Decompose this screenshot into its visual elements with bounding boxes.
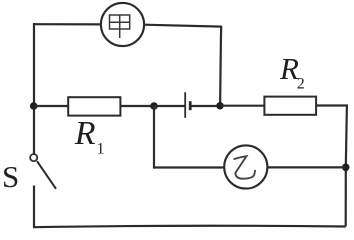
meter U2 label 乙 glyph [234,156,255,179]
svg-text:1: 1 [97,141,105,158]
label R2 [279,51,305,93]
wire meter 乙 to right node [268,166,346,168]
switch S pivot circle [30,154,37,161]
wire battery to node [190,105,221,107]
node R1 right junction [150,102,158,110]
svg-text:R: R [74,115,96,152]
battery BT1 long plate [184,92,186,118]
wire middle left [34,105,68,107]
meter U1 label 甲 glyph [110,15,130,38]
label R1 [74,115,105,158]
svg-text:2: 2 [297,76,305,93]
node right junction [342,164,350,172]
wire branch drop from R1-right node [153,106,155,169]
switch S lower contact stub [33,186,35,228]
resistor R1 [68,97,120,115]
wire R1 to node [120,105,155,107]
battery BT1 short plate [189,101,192,110]
meter U2 (乙) circle [224,145,267,188]
resistor R2 [264,97,316,115]
wire branch horizontal to meter 乙 [153,166,224,168]
wire node to battery [154,105,185,107]
wire bottom [33,226,346,227]
wire left vertical [33,23,35,154]
wire R2 to right corner [316,106,347,227]
wire top-left segment [34,23,101,25]
meter U1 (甲) circle [101,3,144,46]
svg-text:S: S [2,159,19,194]
wire right drop from top to battery node [220,26,221,106]
wire top-right segment [144,25,221,27]
wire node to R2 [220,105,264,107]
node battery right junction [216,102,223,109]
node at left vertical / middle wire [30,102,38,110]
switch S blade [37,161,56,189]
